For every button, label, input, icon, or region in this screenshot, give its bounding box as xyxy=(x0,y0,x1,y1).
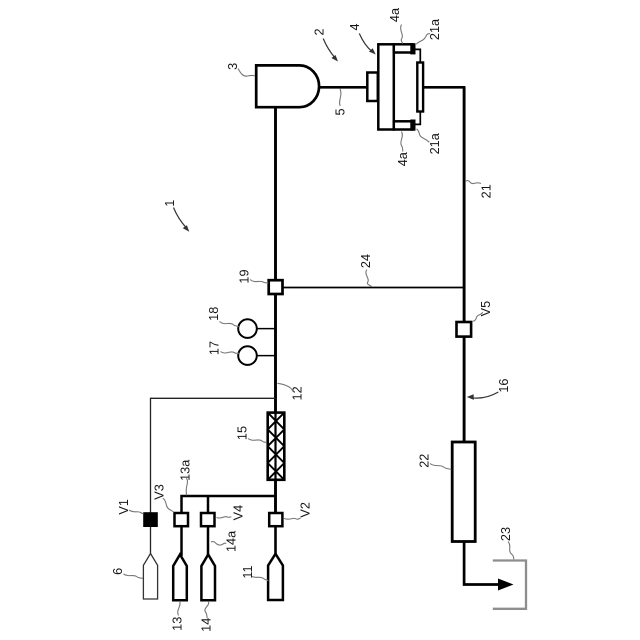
label 12 with leader xyxy=(278,383,305,400)
svg-text:13: 13 xyxy=(171,617,185,631)
wire : node 19 down to mixer 15 xyxy=(274,294,277,413)
terminal 21a : bottom black block xyxy=(410,120,415,131)
valve V4 xyxy=(201,513,215,526)
electrode plate : right thin rect xyxy=(417,63,423,112)
node 19 : junction box xyxy=(269,280,283,294)
wire : bottom terminal to plate xyxy=(416,112,421,125)
label 11 with leader xyxy=(241,565,268,580)
wire : valve V3 to cylinder 13 xyxy=(180,526,183,556)
valve V3 xyxy=(175,513,189,526)
label 4a top with leader xyxy=(388,7,403,43)
svg-text:4: 4 xyxy=(348,23,362,30)
wire : valve V4 to cylinder 14 xyxy=(207,526,210,556)
label V1 with leader xyxy=(117,499,144,515)
reactor 4 : main body xyxy=(378,44,394,129)
svg-text:1: 1 xyxy=(163,200,177,207)
wire 13a : gas manifold line xyxy=(182,496,277,513)
wire : trap 22 outlet elbow xyxy=(464,541,500,585)
svg-text:17: 17 xyxy=(208,341,222,355)
cylinder 13 : gas bottle xyxy=(173,555,187,601)
valve V1 : filled black square xyxy=(143,512,158,527)
label 3 with leader xyxy=(226,63,255,76)
label V3 with leader xyxy=(153,484,174,512)
wire : pump 3 down-pipe to node 19 xyxy=(274,107,277,280)
svg-text:14: 14 xyxy=(200,618,214,632)
wire : thin branch line to valve V1 xyxy=(151,398,276,512)
label 19 with leader xyxy=(237,269,268,283)
label 13 with leader xyxy=(171,601,185,631)
label 23 with leader xyxy=(499,527,514,559)
exhaust box 23 : open-left gray box xyxy=(493,561,526,609)
svg-text:6: 6 xyxy=(111,568,125,575)
label 1 with arrow xyxy=(163,200,189,232)
svg-text:14a: 14a xyxy=(225,530,239,552)
wire : reactor output to line 21 corner xyxy=(423,87,464,89)
wire 21 : right vertical line down to valve V5 xyxy=(463,87,466,322)
svg-text:V2: V2 xyxy=(298,502,312,518)
svg-text:4a: 4a xyxy=(396,151,410,166)
wire 5 : pump outlet to reactor stub xyxy=(316,86,368,89)
label V4 with leader xyxy=(217,505,246,521)
svg-text:15: 15 xyxy=(235,426,249,440)
svg-text:22: 22 xyxy=(418,454,432,468)
label 4 with arrow xyxy=(348,23,376,54)
wire : top terminal to plate xyxy=(416,49,421,62)
label 13a with leader xyxy=(178,459,192,496)
valve V5 xyxy=(457,322,472,337)
label 15 with leader xyxy=(235,426,266,443)
svg-text:V4: V4 xyxy=(232,505,246,521)
label 24 with leader xyxy=(359,254,373,287)
wire : mixer 15 to valve V2 xyxy=(274,480,277,513)
mixer 15 : body rect xyxy=(268,413,285,480)
label 14 with leader xyxy=(200,601,214,632)
reactor 4 : stub flange xyxy=(367,73,378,102)
wire : valve V5 down to trap 22 xyxy=(463,336,466,442)
svg-text:13a: 13a xyxy=(178,459,192,481)
wire 24 : bypass line node 19 to line 21 xyxy=(283,287,464,289)
svg-text:23: 23 xyxy=(499,527,513,541)
vessel 6 : thin outline bottle xyxy=(143,554,157,600)
label 5 with leader xyxy=(333,89,347,116)
label V2 with leader xyxy=(284,502,312,519)
pump 3 : dome shaped blower xyxy=(256,65,319,107)
gauge 17 : pressure gauge circle xyxy=(238,346,257,365)
svg-text:12: 12 xyxy=(291,386,305,400)
cylinder 14 : gas bottle xyxy=(201,555,215,601)
wire : valve V1 to vessel 6 xyxy=(150,527,152,555)
wire : manifold tap to valve V4 xyxy=(207,496,210,513)
label 2 with arrow xyxy=(313,28,339,61)
svg-text:21a: 21a xyxy=(428,18,442,40)
svg-text:18: 18 xyxy=(207,307,221,321)
tank 11 : gas bottle xyxy=(268,554,283,600)
label 21a top with leader xyxy=(416,18,442,44)
svg-text:21: 21 xyxy=(479,184,493,198)
label 21a bottom with leader xyxy=(417,129,443,155)
svg-text:4a: 4a xyxy=(388,7,402,22)
label 6 with leader xyxy=(111,568,143,579)
svg-text:19: 19 xyxy=(237,269,251,283)
electrode 4a : top xyxy=(394,44,413,52)
svg-text:5: 5 xyxy=(333,108,347,115)
label 22 with leader xyxy=(418,454,452,470)
label 21 with leader xyxy=(466,181,493,199)
wire : stub to gauge 18 xyxy=(256,328,275,330)
svg-text:21a: 21a xyxy=(428,132,442,154)
label V5 with leader xyxy=(473,301,493,321)
trap 22 : tall rect xyxy=(452,442,475,542)
terminal 21a : top black block xyxy=(410,43,415,54)
label 16 with arrow xyxy=(467,379,511,400)
label 18 with leader xyxy=(207,307,239,327)
label 14a with leader xyxy=(211,530,239,552)
label 4a bottom with leader xyxy=(396,132,410,167)
svg-text:V3: V3 xyxy=(153,484,167,500)
svg-text:16: 16 xyxy=(497,379,511,393)
svg-text:V1: V1 xyxy=(117,499,131,515)
wire : valve V2 to tank 11 xyxy=(274,526,277,555)
wire : stub to gauge 17 xyxy=(256,355,275,357)
label 17 with leader xyxy=(208,341,240,355)
gauge 18 : pressure gauge circle xyxy=(238,319,257,338)
svg-text:2: 2 xyxy=(313,28,327,35)
valve V2 xyxy=(269,513,282,526)
svg-text:24: 24 xyxy=(359,254,373,268)
electrode 4a : bottom xyxy=(394,121,413,129)
arrow : flow arrow into exhaust 23 xyxy=(498,579,514,591)
